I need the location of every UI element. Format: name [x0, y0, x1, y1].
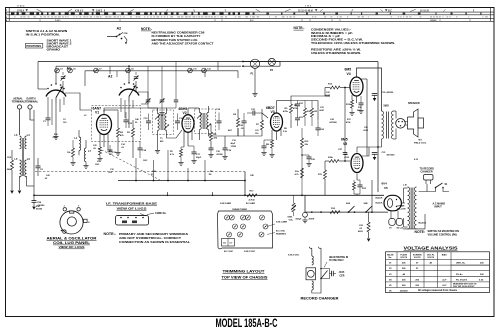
svg-text:VOLTS: VOLTS [414, 257, 421, 259]
svg-text:No.: No. [389, 257, 393, 259]
switch S1 mains [436, 183, 443, 188]
band switch A2 [119, 89, 139, 95]
resistor R12 grid [330, 86, 340, 89]
capacitor C30 filter [372, 93, 378, 95]
trim box C6 C7 [222, 239, 235, 247]
bus AF line [118, 180, 245, 182]
svg-text:AERIAL & OSCILLATOR: AERIAL & OSCILLATOR [47, 236, 98, 240]
svg-text:6V4: 6V4 [382, 182, 388, 186]
svg-text:S.W.1: S.W.1 [55, 20, 61, 22]
svg-text:CER: CER [340, 275, 345, 277]
ground lamp branch [252, 93, 257, 95]
svg-text:.05/200: .05/200 [216, 154, 224, 156]
wire T1 top [148, 108, 158, 114]
wire AF vert 168 [167, 150, 169, 181]
wire B+ feed [377, 62, 379, 193]
dial lamp P2 [268, 58, 275, 65]
svg-text:S.W.2 AER: S.W.2 AER [220, 202, 231, 205]
switch S2B [365, 211, 367, 213]
padder cap C10b [160, 99, 165, 101]
grid stopper R11 [329, 160, 339, 163]
capacitor C23b [307, 156, 312, 158]
svg-text:HEAD SWITCH IN: HEAD SWITCH IN [329, 256, 348, 259]
resistor R17 above layout [247, 194, 257, 197]
svg-text:FIL A+: FIL A+ [456, 273, 463, 276]
resistor R21 mains [367, 222, 370, 232]
trimming chassis outline [218, 211, 273, 249]
wire gang verticals [55, 103, 57, 130]
svg-text:40/1350: 40/1350 [387, 154, 396, 157]
svg-text:I.F. TRANSFORMER BASE: I.F. TRANSFORMER BASE [106, 201, 157, 205]
resistor R16 [304, 108, 307, 117]
svg-text:FIELD COIL: FIELD COIL [414, 143, 427, 145]
resistor R10 [330, 211, 340, 214]
resistor R8 V3 cathode [271, 140, 274, 148]
wire V2 pins [183, 131, 185, 147]
wire OPT secondary [394, 110, 397, 112]
IF transformer T2 [200, 113, 202, 130]
coil L6 [25, 160, 27, 177]
ground C30 [374, 95, 376, 98]
trimmer C12 [202, 68, 207, 73]
svg-text:TERMINAL: TERMINAL [25, 99, 39, 103]
earth terminal [28, 105, 32, 109]
svg-text:NOTE:-: NOTE:- [141, 27, 152, 31]
pot back S2 mount [303, 212, 308, 217]
svg-text:V4: V4 [347, 72, 351, 76]
wire lamp branch down [254, 68, 256, 93]
trimmer arrow T1a [155, 115, 160, 120]
svg-text:S2A: S2A [346, 202, 351, 205]
svg-text:VALVE: VALVE [387, 253, 394, 256]
capacitor C58 [32, 200, 37, 202]
volume pot R6 [292, 203, 295, 212]
svg-text:GRAM: GRAM [430, 19, 437, 22]
wire AF vert 188 [187, 168, 189, 181]
svg-text:GRAMO: GRAMO [47, 47, 61, 51]
trimmer arrow T2b [206, 124, 211, 129]
resistor diode load [261, 120, 264, 130]
wire screen rail [366, 79, 368, 156]
svg-text:1M: 1M [209, 174, 212, 176]
svg-text:1M: 1M [233, 114, 236, 116]
core aerial coils [22, 138, 24, 176]
wire AF vert 136 [135, 158, 137, 181]
svg-text:VOLTS: VOLTS [400, 257, 407, 259]
svg-text:RECORD CHANGER: RECORD CHANGER [301, 297, 340, 301]
wire V5 screen [362, 147, 369, 156]
capacitor C57 [331, 271, 333, 276]
resistor R17a [311, 108, 314, 117]
svg-text:25VW: 25VW [309, 219, 315, 221]
wire heater bus top [38, 61, 378, 63]
capacitor C25 V4 [359, 102, 364, 104]
svg-text:2.2M: 2.2M [53, 137, 58, 139]
osc grid cap C10 [124, 119, 129, 121]
resistor R2 [117, 128, 120, 137]
wire A1 to V1 [65, 93, 92, 110]
svg-text:SPEAKER: SPEAKER [408, 102, 420, 105]
switch S2A [348, 211, 350, 213]
wire changer left [311, 250, 313, 256]
trimmer SW2 AER [225, 215, 230, 220]
capacitor C18 [217, 120, 222, 122]
svg-text:OSC: OSC [143, 160, 148, 162]
svg-text:16 19 25: 16 19 25 [420, 10, 430, 12]
capacitor C31 filter [372, 152, 378, 154]
wire V4 plate [357, 68, 382, 111]
lug 3 [84, 219, 88, 222]
svg-text:TERMINAL: TERMINAL [12, 99, 26, 103]
trimmer C9 [233, 224, 238, 229]
svg-text:V1: V1 [95, 111, 99, 115]
wire V3 grid [262, 113, 268, 118]
wire audio bus [290, 120, 292, 128]
svg-text:25 31 41 49 M: 25 31 41 49 M [298, 9, 313, 12]
svg-text:UNTL B+: UNTL B+ [456, 263, 466, 265]
voltage plug links [389, 219, 395, 226]
coil lug panel circle [60, 211, 83, 234]
coil L5 [20, 160, 22, 177]
svg-text:.047/200: .047/200 [329, 121, 338, 124]
svg-text:6.3V: 6.3V [414, 159, 419, 161]
resistor R5 V2 cathode [180, 149, 183, 157]
gang link dashed [98, 148, 160, 180]
tube V1 6AN7 [97, 115, 112, 135]
capacitor C22 [295, 103, 300, 105]
svg-text:VOL: VOL [289, 219, 294, 221]
capacitor C1 [46, 117, 51, 119]
wire A2 to V1 [138, 92, 148, 104]
svg-text:NOTE:: NOTE: [415, 230, 426, 234]
svg-text:.0047: .0047 [319, 109, 325, 112]
svg-text:.0047: .0047 [325, 94, 331, 97]
ground C58 [32, 207, 36, 210]
svg-text:S.W.3 OSC: S.W.3 OSC [288, 255, 300, 257]
switch A2 stator detail [107, 36, 116, 38]
trimmer C7 [94, 68, 99, 73]
trimmer C4 [241, 224, 246, 229]
trimmer C3 [229, 215, 234, 220]
svg-text:-6.2*: -6.2* [442, 279, 447, 281]
svg-text:6M5: 6M5 [345, 68, 352, 72]
pickup head [306, 268, 316, 280]
coil L4 [25, 136, 27, 149]
svg-text:NOTE:-: NOTE:- [294, 26, 305, 30]
svg-text:V5: V5 [384, 186, 388, 190]
svg-text:.0015: .0015 [339, 272, 345, 274]
svg-text:B.C OSC: B.C OSC [276, 231, 286, 233]
svg-text:40µF: 40µF [231, 142, 236, 145]
trimmer C5 [68, 68, 73, 73]
ground aerial 1 [10, 191, 14, 194]
svg-text:BLACK: BLACK [376, 197, 384, 200]
svg-text:AVC: AVC [228, 129, 233, 132]
lug 4 [63, 230, 66, 233]
tube V5 6M5 [351, 154, 363, 173]
wire top coupling [291, 96, 330, 101]
svg-text:230/250: 230/250 [400, 291, 409, 293]
wire V4 screen [361, 78, 367, 80]
wire bottom mains [403, 228, 425, 230]
dial lamp P1 [250, 59, 259, 68]
wire V1 plate [104, 108, 148, 112]
padder cap C10a [146, 99, 151, 101]
svg-text:CORE No.: CORE No. [155, 212, 167, 215]
dashed box osc unit [92, 106, 141, 142]
svg-text:A2: A2 [117, 26, 122, 30]
capacitor C19 [223, 147, 228, 149]
svg-text:230V TAP. 20,000 Ω/VOLT: 230V TAP. 20,000 Ω/VOLT [453, 285, 475, 288]
svg-text:5M/3: 5M/3 [384, 106, 390, 108]
pickup coil lower [312, 281, 314, 290]
resistor R1 V1 cathode [99, 147, 102, 155]
if base drawing [116, 216, 149, 226]
resistor R15 [11, 160, 14, 170]
ground switch A1 [55, 130, 57, 136]
capacitor C13 V1 [108, 149, 113, 151]
svg-text:NOTE:-: NOTE:- [104, 232, 117, 236]
svg-text:S.W.1 AER: S.W.1 AER [276, 221, 287, 224]
positions legend box [25, 43, 42, 48]
wire V3 plate [276, 101, 278, 114]
svg-text:S.W.2 OSC: S.W.2 OSC [244, 251, 256, 253]
dial scale strip [6, 11, 495, 13]
trimmer C5 [245, 215, 250, 220]
tube V4 6M5 [350, 77, 363, 96]
wire bus 3 [85, 70, 238, 72]
wire V4 cathode [356, 96, 358, 103]
svg-text:VIEW OF LUGS: VIEW OF LUGS [117, 206, 147, 210]
svg-text:CONNECTION AS SHOWN IS ESSENTI: CONNECTION AS SHOWN IS ESSENTIAL [119, 240, 190, 244]
svg-text:A2: A2 [108, 75, 112, 79]
coil L1 [79, 137, 81, 151]
svg-text:S.W.2: S.W.2 [96, 10, 103, 12]
svg-text:4.7kΩ: 4.7kΩ [249, 198, 255, 201]
changer plug [424, 175, 434, 181]
wire A2 up [128, 66, 130, 82]
svg-text:25µF: 25µF [196, 157, 202, 159]
trimmer arrow T1b [164, 125, 169, 130]
wire V5 plate [356, 147, 358, 153]
wire padder bus [148, 107, 176, 109]
resistor R4 V2 screen [210, 132, 213, 141]
svg-text:1M: 1M [314, 111, 317, 113]
resistor R18 V5 cathode [353, 182, 356, 190]
wire mains [419, 188, 436, 192]
wire R15 [11, 150, 13, 160]
svg-text:OSC: OSC [95, 164, 100, 166]
svg-text:TOLERANCE ±20% UNLESS OTHERWIS: TOLERANCE ±20% UNLESS OTHERWISE SHOWN. [311, 41, 395, 45]
svg-text:SCREEN: SCREEN [413, 254, 422, 256]
svg-text:6M5: 6M5 [341, 138, 348, 142]
trimmer SW OSC [227, 232, 232, 237]
wire changer drop 2 [320, 248, 322, 250]
trimmer C11 [188, 68, 193, 73]
svg-text:400V: 400V [358, 230, 363, 233]
wire AVC [237, 128, 239, 136]
variable capacitor C4 [61, 76, 66, 81]
svg-text:L.B: L.B [403, 185, 407, 187]
svg-text:POSITIONS: POSITIONS [26, 44, 41, 48]
bus AVC dashed [35, 171, 245, 173]
capacitor C15 [146, 120, 151, 122]
ground V2 cathode [178, 162, 183, 164]
trimmer C11 [238, 232, 243, 237]
svg-text:OSRAM TUNER: OSRAM TUNER [232, 208, 247, 211]
volume coupling cap C21 [252, 111, 254, 116]
capacitor C27 tone [343, 152, 348, 154]
svg-text:VOLUME CONTROL (R6): VOLUME CONTROL (R6) [428, 234, 457, 237]
lug 2 [77, 208, 80, 211]
resistor R9b audio [301, 138, 304, 148]
svg-text:40/350: 40/350 [387, 91, 394, 94]
svg-text:TRIMMING LAYOUT: TRIMMING LAYOUT [223, 270, 265, 274]
resistor R16b [72, 148, 75, 157]
wire to V5 grid [371, 180, 373, 212]
resistor R13 V4 cathode [351, 100, 354, 108]
wire A1 contacts down [47, 97, 49, 118]
band switch A1 [46, 90, 66, 96]
svg-text:B.C.: B.C. [250, 20, 255, 22]
svg-text:560µF: 560µF [296, 219, 303, 221]
svg-text:NO: NO [419, 140, 423, 142]
svg-text:1743.4: 1743.4 [17, 9, 25, 12]
svg-text:220k: 220k [328, 157, 334, 159]
wire T1 bottom [157, 131, 159, 151]
svg-text:OSC PL: OSC PL [427, 254, 435, 256]
svg-text:INPUT: INPUT [435, 206, 443, 209]
svg-text:BLACK: BLACK [376, 202, 384, 205]
padder cap C10c [174, 99, 179, 101]
svg-text:12VW: 12VW [231, 146, 237, 148]
loudspeaker [408, 109, 419, 137]
ground C31 [374, 154, 376, 157]
wire AF bus drop [244, 172, 246, 196]
wire changer drop 1 [311, 248, 313, 256]
svg-text:B C: B C [388, 10, 392, 12]
wire transformer taps [404, 187, 408, 189]
aerial terminal [17, 105, 21, 109]
wire V5 grid components [324, 161, 326, 170]
trimmer BC AER [241, 215, 246, 220]
wire grid tie V4 V5 [344, 88, 346, 147]
svg-text:FIL VOLTS: FIL VOLTS [456, 280, 468, 282]
ground R21 [367, 239, 371, 242]
svg-text:PADDING: PADDING [276, 232, 286, 235]
svg-text:500k: 500k [288, 217, 294, 219]
capacitor C24 coupling [316, 127, 321, 129]
svg-text:K M V 5: K M V 5 [75, 10, 84, 12]
wire V1 pins [99, 134, 101, 147]
svg-text:17 43 4: 17 43 4 [17, 4, 25, 7]
svg-text:All voltages measured from cha: All voltages measured from chassis [418, 289, 458, 292]
capacitor C20 [242, 120, 247, 122]
speaker plug [396, 119, 406, 129]
svg-text:UNLESS OTHERWISE SHOWN.: UNLESS OTHERWISE SHOWN. [311, 51, 361, 55]
wire T1 secondary to V2 grid [176, 130, 182, 138]
ground L7 [83, 165, 88, 167]
svg-text:CHANGER: CHANGER [421, 170, 433, 173]
svg-text:BLACK: BLACK [419, 222, 427, 225]
svg-text:-6.5*: -6.5* [442, 285, 447, 287]
coil L3 [20, 136, 22, 149]
coil L7 osc [84, 148, 86, 162]
ground C17 [191, 160, 196, 162]
wire OPT primary bottom [378, 139, 382, 147]
svg-text:B.C OSC: B.C OSC [224, 251, 234, 253]
svg-text:.0033: .0033 [344, 157, 350, 159]
svg-text:MODEL 185A-B-C: MODEL 185A-B-C [216, 316, 278, 330]
lug 1 [63, 208, 66, 211]
trimmer BC OSC [259, 232, 264, 237]
tube V2 6BH5 [182, 115, 194, 133]
svg-text:VIEW OF LUGS: VIEW OF LUGS [59, 245, 85, 249]
capacitor C14 [138, 147, 143, 149]
trimmer arrow T2a [197, 114, 202, 119]
trimmer C3 [55, 68, 60, 73]
svg-text:YELLOW: YELLOW [397, 209, 406, 211]
wire V2 plate [187, 108, 189, 115]
svg-text:PLATE: PLATE [400, 253, 407, 256]
svg-text:56/250: 56/250 [36, 208, 43, 210]
wire V5 cathode [356, 174, 358, 181]
svg-text:IN S.W.1 POSITION.: IN S.W.1 POSITION. [26, 33, 60, 37]
wire changer bottom [312, 250, 321, 293]
svg-text:V2: V2 [183, 111, 187, 115]
IF transformer T1 [158, 114, 160, 131]
wire lamp loop [243, 61, 280, 63]
svg-text:S2B: S2B [364, 203, 369, 205]
wire A2 contacts down [120, 98, 122, 112]
ground aerial 2 [18, 191, 22, 194]
svg-text:VOLTAGE ANALYSIS: VOLTAGE ANALYSIS [404, 245, 458, 250]
svg-text:COIL LUG PANEL: COIL LUG PANEL [53, 241, 90, 245]
wire bus drops [109, 66, 111, 74]
svg-text:AND THE ADJACENT STATOR CONTAC: AND THE ADJACENT STATOR CONTACT [152, 41, 214, 45]
tube V6 6V4 [384, 195, 401, 211]
svg-text:1 76 6: 1 76 6 [305, 5, 312, 7]
wire aerial junction [19, 176, 21, 190]
trimmer C7 [260, 215, 265, 220]
svg-text:B.C AER: B.C AER [246, 202, 255, 205]
capacitor C17 [192, 151, 197, 153]
wire mains S2 line [305, 195, 388, 212]
svg-text:VOLTS: VOLTS [427, 257, 434, 259]
head switch [320, 268, 322, 270]
wire detector [222, 128, 238, 136]
output transformer T3 [382, 111, 384, 139]
wire T2 bottom [199, 130, 201, 141]
resistor R9 plate load [290, 104, 293, 113]
svg-text:BIAS: BIAS [442, 253, 448, 256]
wire rectifier [401, 202, 405, 204]
svg-text:470k: 470k [283, 110, 289, 113]
capacitor C23 [295, 117, 300, 119]
trimmer L5 [263, 224, 268, 229]
power transformer T4 [408, 187, 410, 229]
wire AF vert 205 [204, 160, 206, 181]
wire T2 top [199, 108, 201, 113]
wire left bus [33, 110, 35, 186]
pickup coil upper [312, 256, 314, 265]
resistor R3 [132, 128, 135, 137]
svg-text:TOP VIEW OF CHASSIS: TOP VIEW OF CHASSIS [222, 276, 269, 280]
svg-text:V3: V3 [271, 110, 275, 114]
variable capacitor C8 [134, 76, 139, 81]
dial scale tick marks [11, 13, 14, 15]
capacitor C16 [175, 120, 180, 122]
